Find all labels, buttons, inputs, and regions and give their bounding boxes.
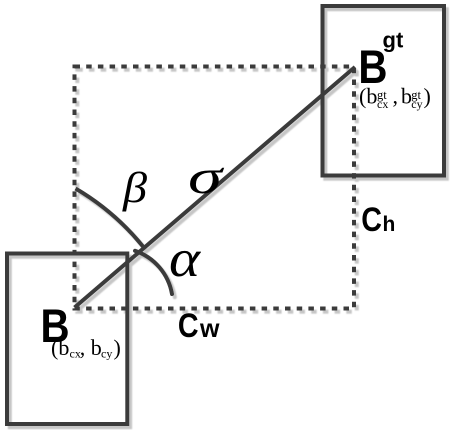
svg-text:gt: gt bbox=[377, 88, 387, 102]
svg-text:cy: cy bbox=[101, 346, 112, 360]
svg-text:gt: gt bbox=[383, 28, 404, 53]
svg-text:gt: gt bbox=[411, 88, 421, 102]
svg-text:): ) bbox=[424, 84, 431, 109]
svg-text:h: h bbox=[383, 213, 396, 236]
svg-text:C: C bbox=[361, 201, 382, 239]
svg-text:): ) bbox=[114, 335, 121, 360]
svg-text:σ: σ bbox=[188, 149, 225, 204]
svg-text:α: α bbox=[169, 230, 201, 288]
svg-text:w: w bbox=[199, 315, 220, 343]
svg-text:(b: (b bbox=[51, 335, 69, 360]
svg-text:(b: (b bbox=[359, 84, 377, 109]
svg-text:C: C bbox=[178, 307, 199, 345]
svg-text:,: , bbox=[80, 335, 86, 360]
svg-text:β: β bbox=[122, 165, 148, 212]
svg-text:,: , bbox=[393, 84, 399, 109]
